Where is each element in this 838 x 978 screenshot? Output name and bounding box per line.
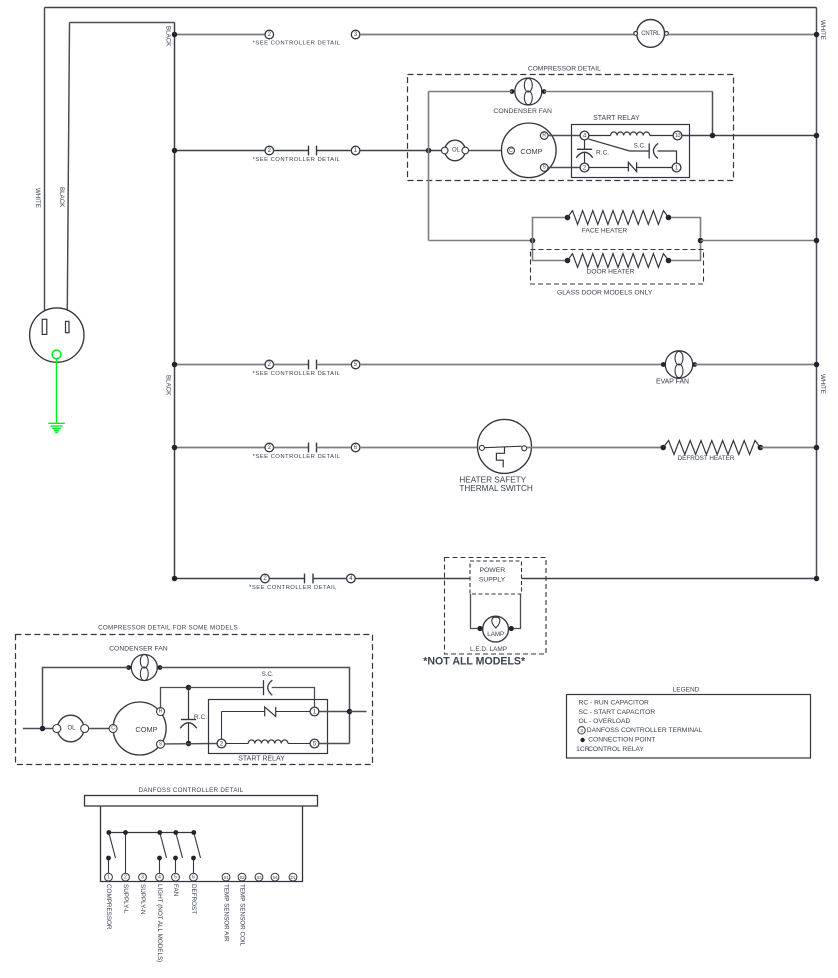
relay N contact between 1 and 2 (bottom relay) bbox=[226, 743, 249, 745]
node heater right junction bbox=[698, 238, 704, 244]
node bottom fan left dot bbox=[126, 665, 131, 670]
wire bottom terminal 1 to node bbox=[319, 711, 350, 713]
wire door heater branch right-up bbox=[671, 244, 701, 261]
wire row5 terminal2 to contact bbox=[269, 578, 304, 580]
danfoss terminal S1 bbox=[222, 873, 230, 881]
danfoss wire terminal 2 to bus bbox=[125, 833, 127, 874]
wire row5 power supply to white bus bbox=[522, 578, 817, 580]
relay terminal 4 (top relay) bbox=[580, 131, 589, 140]
svg-text:1: 1 bbox=[107, 874, 110, 880]
wire heater feed from OL drop bbox=[429, 240, 533, 242]
capacitor S.C. (bottom) bbox=[263, 680, 265, 695]
wire COMP R to relay terminal 4 bbox=[548, 135, 580, 137]
wire power supply left drop bbox=[471, 594, 478, 629]
wire row2 terminal2 to contact bbox=[274, 150, 309, 152]
svg-text:WHITE: WHITE bbox=[819, 374, 826, 394]
overload OL (top) bbox=[445, 140, 466, 161]
lamp L.E.D. circle bbox=[483, 616, 509, 642]
contact 1CR row5 bbox=[305, 574, 314, 584]
wire main top (hot) from plug white line across top bbox=[45, 7, 817, 9]
node junction white bus row4 bbox=[814, 445, 820, 451]
wire bottom S.C. to terminal 1 drop bbox=[272, 688, 315, 708]
wire row1 from black bus to terminal 2 bbox=[175, 34, 266, 36]
wire condenser fan right drop bbox=[712, 92, 714, 136]
danfoss terminal 1 bbox=[105, 873, 113, 881]
svg-text:5: 5 bbox=[174, 874, 177, 880]
svg-text:2: 2 bbox=[124, 874, 127, 880]
node junction black bus row4 bbox=[172, 445, 178, 451]
wire bottom OL to COMP C bbox=[89, 728, 110, 730]
svg-text:RC - RUN CAPACITOR: RC - RUN CAPACITOR bbox=[579, 699, 650, 706]
node face heater right dot bbox=[666, 215, 672, 221]
wire row2 contact to terminal 1 bbox=[317, 150, 351, 152]
relay terminal 2 (top relay) bbox=[580, 163, 589, 172]
svg-text:POWER: POWER bbox=[479, 567, 505, 574]
danfoss switch contact for terminal 5 bbox=[175, 858, 177, 873]
wire row2 from black bus to terminal 2 bbox=[175, 150, 266, 152]
wire row4 defrost heater to white bus bbox=[760, 447, 816, 449]
node heater left junction bbox=[530, 238, 536, 244]
svg-text:10: 10 bbox=[675, 133, 681, 139]
svg-text:*SEE CONTROLLER DETAIL: *SEE CONTROLLER DETAIL bbox=[253, 41, 341, 47]
svg-text:SC - START CAPACITOR: SC - START CAPACITOR bbox=[579, 709, 656, 716]
wire inner top BLACK from plug to black bus bbox=[70, 22, 175, 24]
relay N contact between 2 and 1 (top relay) bbox=[589, 167, 629, 169]
wire row4 terminal2 to contact bbox=[274, 447, 309, 449]
svg-text:COMP: COMP bbox=[520, 147, 542, 156]
svg-text:4: 4 bbox=[583, 132, 587, 139]
svg-text:TEMP SENSOR AIR: TEMP SENSOR AIR bbox=[223, 884, 230, 942]
terminal 2 controller (row3) bbox=[265, 360, 274, 369]
relay coil between 2 and 5 (bottom relay) bbox=[248, 740, 288, 744]
wire heaters to white bus bbox=[701, 240, 817, 242]
wire bottom S.C. line left segment bbox=[189, 687, 264, 689]
terminal 2 controller (row2) bbox=[265, 146, 274, 155]
wire bottom R riser to S.C. line bbox=[161, 688, 189, 708]
danfoss terminal 3 bbox=[139, 873, 147, 881]
svg-text:COMPRESSOR DETAIL: COMPRESSOR DETAIL bbox=[528, 66, 601, 73]
node condenser fan right terminal dot bbox=[542, 89, 547, 94]
wire bottom output stub bbox=[350, 711, 367, 713]
wire relay terminal 10 output bbox=[682, 135, 817, 137]
svg-text:BLACK: BLACK bbox=[165, 26, 172, 47]
svg-text:THERMAL SWITCH: THERMAL SWITCH bbox=[459, 484, 532, 493]
wire OL to COMP C terminal bbox=[469, 150, 508, 152]
svg-text:2: 2 bbox=[220, 740, 224, 747]
wire danfoss internal bus bbox=[109, 832, 194, 834]
node door heater left dot bbox=[565, 258, 571, 264]
danfoss switch contact for terminal 4 bbox=[159, 858, 161, 873]
svg-text:S: S bbox=[542, 165, 546, 171]
fan motor CONDENSER FAN (bottom) bbox=[131, 655, 157, 681]
danfoss terminal 2 bbox=[122, 873, 130, 881]
node bottom OL input junction bbox=[40, 726, 46, 732]
capacitor R.C. (top relay) bbox=[584, 140, 586, 149]
thermal switch right terminal bbox=[522, 446, 527, 451]
wire door heater branch down-left bbox=[533, 241, 566, 261]
svg-text:D1: D1 bbox=[291, 875, 297, 880]
node junction white bus row1 bbox=[814, 32, 820, 38]
wire row4 terminal6 to thermal switch bbox=[360, 447, 480, 449]
wire row3 contact to terminal 5 bbox=[317, 364, 351, 366]
start relay box (bottom) bbox=[209, 700, 328, 754]
glass door models dashed box bbox=[531, 250, 704, 285]
power supply outer dashed box (not all models) bbox=[445, 558, 547, 655]
svg-text:LIGHT (NOT ALL MODELS): LIGHT (NOT ALL MODELS) bbox=[156, 884, 163, 962]
svg-text:CONTROL RELAY: CONTROL RELAY bbox=[588, 746, 644, 753]
wire row4 thermal switch to defrost heater bbox=[527, 447, 664, 449]
svg-text:5: 5 bbox=[313, 740, 317, 747]
danfoss controller body box bbox=[101, 806, 303, 882]
danfoss terminal 5 bbox=[172, 873, 180, 881]
svg-text:EVAP FAN: EVAP FAN bbox=[656, 378, 689, 385]
svg-text:C: C bbox=[111, 726, 115, 732]
wire bottom input stub bbox=[23, 728, 53, 730]
danfoss terminal D1 bbox=[289, 873, 297, 881]
svg-text:*SEE CONTROLLER DETAIL: *SEE CONTROLLER DETAIL bbox=[249, 585, 337, 591]
wire row3 from black bus to terminal 2 bbox=[175, 364, 266, 366]
svg-text:SUPPLY: SUPPLY bbox=[479, 576, 506, 583]
wire condenser fan left lead bbox=[429, 91, 513, 93]
svg-text:START RELAY: START RELAY bbox=[593, 115, 640, 122]
danfoss terminal S4 bbox=[271, 873, 279, 881]
relay coil CNTRL (control relay) bbox=[637, 20, 665, 48]
plug right prong (black) bbox=[66, 321, 70, 332]
node defrost heater left dot bbox=[660, 445, 666, 451]
compressor motor COMP (top) bbox=[502, 123, 557, 178]
power supply inner dashed box bbox=[470, 561, 522, 594]
svg-text:CONDENSER FAN: CONDENSER FAN bbox=[493, 108, 552, 115]
relay blade from terminal 4 to S.C. bbox=[588, 139, 649, 151]
wire row4 contact to terminal 6 bbox=[317, 447, 351, 449]
svg-text:1: 1 bbox=[675, 164, 679, 171]
svg-text:DEFROST: DEFROST bbox=[190, 884, 197, 914]
svg-text:CONDENSER FAN: CONDENSER FAN bbox=[109, 645, 168, 652]
node face heater left dot bbox=[565, 215, 571, 221]
wire row1 CNTRL to white bus bbox=[668, 34, 816, 36]
relay terminal 2 (bottom relay) bbox=[217, 739, 226, 748]
danfoss terminal 4 bbox=[156, 873, 164, 881]
danfoss terminal 6 bbox=[190, 873, 198, 881]
wire power supply right drop bbox=[514, 594, 521, 629]
plug left prong (white) bbox=[42, 319, 47, 334]
contact 1CR row3 bbox=[309, 360, 317, 370]
svg-text:FAN: FAN bbox=[172, 884, 179, 897]
svg-text:DEFROST HEATER: DEFROST HEATER bbox=[678, 455, 735, 462]
relay terminal 1 (top relay) bbox=[672, 163, 681, 172]
wire row3 evap fan to white bus bbox=[695, 364, 817, 366]
terminal 2 controller (row5) bbox=[261, 574, 270, 583]
svg-text:COMP: COMP bbox=[135, 725, 157, 734]
danfoss terminal S3 bbox=[255, 873, 263, 881]
wire face heater branch up-left bbox=[533, 218, 566, 241]
svg-text:6: 6 bbox=[192, 874, 195, 880]
resistor DOOR HEATER bbox=[568, 254, 669, 268]
svg-text:SUPPLY-N: SUPPLY-N bbox=[139, 884, 146, 915]
svg-text:WHITE: WHITE bbox=[34, 188, 41, 208]
svg-text:CONNECTION POINT: CONNECTION POINT bbox=[588, 737, 655, 744]
wire BLACK distribution bus vertical bbox=[174, 23, 176, 579]
svg-text:SUPPLY-L: SUPPLY-L bbox=[122, 884, 129, 914]
wire right vertical WHITE neutral bus bbox=[816, 8, 818, 579]
terminal 6 controller (row4) bbox=[351, 443, 360, 452]
svg-text:3: 3 bbox=[580, 728, 583, 733]
fan motor CONDENSER FAN (top) bbox=[515, 78, 542, 105]
contact 1CR row4 bbox=[309, 443, 317, 453]
node junction white bus row3 bbox=[814, 362, 820, 368]
node junction black bus row2 bbox=[172, 148, 178, 154]
svg-text:4: 4 bbox=[158, 874, 161, 880]
svg-text:*SEE CONTROLLER DETAIL: *SEE CONTROLLER DETAIL bbox=[253, 371, 341, 377]
wire row3 terminal5 to evap fan bbox=[360, 364, 663, 366]
wire row5 contact to terminal 4 bbox=[313, 578, 347, 580]
plug ground pin (green) bbox=[52, 350, 61, 359]
svg-text:GLASS DOOR MODELS ONLY: GLASS DOOR MODELS ONLY bbox=[557, 289, 653, 296]
svg-text:S: S bbox=[159, 741, 163, 747]
thermal switch HEATER SAFETY circle bbox=[478, 419, 532, 473]
node junction white bus relay output bbox=[814, 133, 820, 139]
svg-text:LEGEND: LEGEND bbox=[673, 686, 700, 693]
svg-text:WHITE: WHITE bbox=[819, 20, 826, 40]
legend symbol danfoss terminal bbox=[578, 727, 585, 734]
node junction white bus row5 (end) bbox=[814, 576, 820, 582]
node junction fan drop and relay output bbox=[710, 133, 716, 139]
svg-text:*SEE CONTROLLER DETAIL: *SEE CONTROLLER DETAIL bbox=[253, 157, 341, 163]
legend symbol connection point bbox=[580, 738, 584, 742]
node bottom R.C. bottom junction bbox=[186, 741, 192, 747]
danfoss switch contact for terminal 6 bbox=[193, 858, 195, 873]
svg-text:BLACK: BLACK bbox=[58, 187, 65, 208]
node condenser fan left terminal dot bbox=[510, 89, 515, 94]
wire S.C. to right then down to terminal 1 bbox=[658, 151, 677, 163]
svg-text:DOOR HEATER: DOOR HEATER bbox=[587, 268, 635, 275]
svg-text:DANFOSS CONTROLLER TERMINAL: DANFOSS CONTROLLER TERMINAL bbox=[587, 727, 703, 734]
svg-text:R: R bbox=[159, 709, 163, 715]
terminal 2 controller (row1) bbox=[265, 30, 274, 39]
start relay box (top) bbox=[572, 125, 690, 178]
svg-text:TEMP SENSOR COIL: TEMP SENSOR COIL bbox=[239, 884, 246, 947]
svg-text:OL - OVERLOAD: OL - OVERLOAD bbox=[579, 718, 631, 725]
ground symbol (green) bbox=[48, 423, 65, 432]
resistor DEFROST HEATER bbox=[663, 441, 760, 455]
node evap fan left dot bbox=[661, 362, 666, 367]
wire row1 from terminal 3 to CNTRL bbox=[360, 34, 634, 36]
svg-text:S.C.: S.C. bbox=[634, 143, 646, 150]
svg-text:2: 2 bbox=[583, 164, 587, 171]
relay terminal 1 (bottom relay) bbox=[310, 707, 319, 716]
resistor FACE HEATER bbox=[568, 211, 669, 225]
svg-text:*SEE CONTROLLER DETAIL: *SEE CONTROLLER DETAIL bbox=[253, 454, 341, 460]
svg-text:OL: OL bbox=[67, 726, 76, 732]
overload OL (bottom) bbox=[57, 715, 84, 742]
node bottom relay output junction bbox=[347, 709, 353, 715]
thermal switch left terminal bbox=[479, 445, 484, 450]
svg-text:CNTRL: CNTRL bbox=[641, 31, 661, 37]
fan motor EVAP FAN bbox=[665, 351, 692, 378]
contact 1CR row2 bbox=[309, 146, 317, 156]
svg-text:1: 1 bbox=[313, 708, 317, 715]
svg-text:R.C.: R.C. bbox=[194, 714, 207, 721]
wire bottom fan left lead and drop bbox=[43, 668, 129, 729]
wire row3 terminal2 to contact bbox=[274, 364, 309, 366]
wire ground lead (green) bbox=[56, 359, 58, 423]
node bottom fan right dot bbox=[158, 665, 163, 670]
svg-text:COMPRESSOR DETAIL FOR SOME MOD: COMPRESSOR DETAIL FOR SOME MODELS bbox=[98, 625, 238, 632]
node bottom R.C. top junction bbox=[186, 685, 192, 691]
node door heater right dot bbox=[666, 258, 672, 264]
wire left vertical WHITE from frame to plug bbox=[44, 8, 46, 320]
wire COMP S to relay terminal 2 bbox=[548, 167, 580, 169]
svg-text:BLACK: BLACK bbox=[165, 375, 172, 396]
node junction white bus heaters bbox=[814, 238, 820, 244]
svg-text:*NOT ALL MODELS*: *NOT ALL MODELS* bbox=[423, 656, 526, 668]
svg-text:C: C bbox=[509, 148, 513, 154]
relay coil between 4 and 10 (top relay) bbox=[589, 135, 611, 137]
danfoss controller top bar bbox=[85, 796, 318, 807]
wire bottom terminal 5 to right riser bbox=[319, 743, 350, 745]
compressor motor COMP (bottom) bbox=[113, 702, 166, 755]
wire BLACK vertical from plug prong bbox=[67, 23, 69, 322]
node junction black bus row3 bbox=[172, 362, 178, 368]
svg-text:3: 3 bbox=[141, 874, 144, 880]
thermal switch heater element bbox=[496, 447, 504, 467]
svg-text:LAMP: LAMP bbox=[487, 631, 504, 638]
wire face heater branch right-down bbox=[671, 218, 701, 238]
node junction condenser-fan drop / OL input bbox=[426, 148, 432, 154]
wire condenser fan left drop bbox=[428, 92, 430, 151]
svg-text:OL: OL bbox=[452, 148, 461, 154]
svg-text:FACE HEATER: FACE HEATER bbox=[582, 227, 628, 234]
node junction black bus row5 (end of bus) bbox=[172, 576, 178, 582]
wire row5 terminal4 to power supply bbox=[355, 578, 470, 580]
node defrost heater right dot bbox=[758, 445, 764, 451]
capacitor S.C. (top relay) bbox=[648, 143, 650, 158]
svg-text:START RELAY: START RELAY bbox=[238, 755, 285, 762]
danfoss switch contact for terminal 1 bbox=[108, 858, 110, 873]
bottom compressor dashed box bbox=[16, 635, 373, 765]
wire condenser fan right lead bbox=[544, 91, 713, 93]
node evap fan right dot bbox=[692, 362, 697, 367]
wire row2 terminal1 into compressor box to OL bbox=[360, 150, 441, 152]
terminal 4 controller (row5) bbox=[347, 574, 356, 583]
svg-text:L.E.D. LAMP: L.E.D. LAMP bbox=[470, 646, 507, 653]
legend box bbox=[567, 695, 811, 759]
node lamp left dot bbox=[477, 626, 482, 631]
node junction black bus row1 bbox=[172, 32, 178, 38]
terminal 5 controller (row3) bbox=[351, 360, 360, 369]
terminal 2 controller (row4) bbox=[265, 443, 274, 452]
relay terminal 5 (bottom relay) bbox=[310, 739, 319, 748]
svg-text:DANFOSS CONTROLLER DETAIL: DANFOSS CONTROLLER DETAIL bbox=[139, 787, 244, 794]
svg-text:COMPRESSOR: COMPRESSOR bbox=[105, 884, 112, 930]
capacitor R.C. (bottom) bbox=[188, 688, 190, 720]
wire row5 from black bus to terminal 2 bbox=[175, 578, 261, 580]
wire bottom S lead bbox=[165, 743, 218, 745]
danfoss terminal S2 bbox=[238, 873, 246, 881]
svg-text:R: R bbox=[542, 133, 546, 139]
svg-text:R.C.: R.C. bbox=[596, 150, 609, 157]
plug body circle bbox=[30, 308, 84, 362]
node lamp right dot bbox=[509, 626, 514, 631]
terminal 1 controller (row2) bbox=[351, 146, 360, 155]
wire row4 from black bus to terminal 2 bbox=[175, 447, 266, 449]
thermal switch blade bbox=[484, 446, 521, 448]
wire bottom fan right lead and drop bbox=[160, 668, 350, 744]
relay terminal 10 (top relay) bbox=[673, 131, 682, 140]
svg-text:S.C.: S.C. bbox=[262, 671, 274, 678]
compressor detail dashed box bbox=[408, 75, 734, 181]
terminal 3 controller (row1) bbox=[351, 30, 360, 39]
